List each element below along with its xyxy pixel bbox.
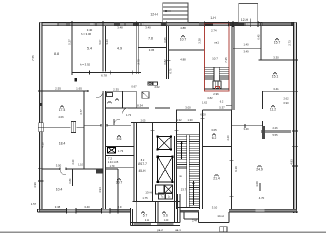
icon room 30.7: [117, 178, 120, 181]
wall y131 double: [261, 129, 291, 131]
svg-text:1.32: 1.32: [176, 118, 182, 122]
svg-text:5.7: 5.7: [143, 214, 148, 218]
svg-text:2.73: 2.73: [287, 40, 291, 46]
wall y60: [259, 59, 294, 61]
wall x199.5/202.5 double: [198, 123, 200, 210]
svg-text:ав-1: ав-1: [175, 228, 181, 232]
svg-text:3.00: 3.00: [185, 106, 191, 110]
wall small step bottom-left corner: [36, 209, 38, 212]
svg-text:1.73: 1.73: [126, 113, 132, 117]
svg-text:1.40: 1.40: [164, 220, 169, 222]
svg-text:9.19: 9.19: [234, 166, 238, 172]
node dark blob left wall: [40, 103, 43, 106]
svg-text:6.78: 6.78: [101, 74, 107, 78]
svg-text:7.35: 7.35: [224, 57, 228, 63]
door swing corridor: [114, 119, 120, 125]
svg-text:3.10: 3.10: [212, 205, 218, 209]
wall x84: [83, 91, 85, 169]
svg-text:4.83: 4.83: [290, 159, 294, 165]
wall x231.6 lower: [231, 110, 233, 209]
svg-text:1.73: 1.73: [118, 149, 124, 153]
wall y201.5 block top: [133, 201, 180, 203]
window opening bottom-right wall: [256, 210, 265, 212]
fixture box2: [142, 92, 149, 99]
svg-text:2.20: 2.20: [226, 135, 230, 141]
icon room 24.9: [258, 165, 261, 168]
svg-text:1.75: 1.75: [142, 196, 148, 200]
svg-text:2.55: 2.55: [55, 87, 61, 91]
ticks right wall: [292, 59, 298, 61]
svg-text:1.62: 1.62: [202, 101, 208, 105]
wall below room 10.7: [168, 49, 204, 51]
ticks top wall: [71, 21, 73, 27]
wall x232/234 double: [231, 26, 233, 110]
svg-text:23.7: 23.7: [181, 188, 187, 192]
wall x118: [117, 169, 119, 209]
svg-text:4.94: 4.94: [98, 187, 102, 193]
wall entrance recess left: [198, 212, 200, 223]
svg-text:14-Н: 14-Н: [217, 214, 224, 218]
wall x134.2 stub: [133, 190, 135, 202]
tick left wall y181: [38, 180, 44, 182]
porch box bottom right: [220, 227, 227, 232]
svg-text:4.18: 4.18: [41, 142, 45, 148]
wall y48.3: [233, 47, 261, 49]
svg-text:Ø17.7: Ø17.7: [138, 162, 147, 166]
svg-text:2.20: 2.20: [72, 159, 75, 164]
door swing room 10.4: [60, 169, 66, 175]
svg-text:h = 3.06: h = 3.06: [81, 32, 92, 36]
svg-text:4.99: 4.99: [33, 182, 37, 188]
svg-text:5.55: 5.55: [272, 133, 278, 137]
ticks in top band: [57, 22, 59, 25]
svg-text:2.62: 2.62: [154, 85, 160, 89]
svg-text:21.4: 21.4: [213, 177, 220, 181]
svg-text:13-Н: 13-Н: [145, 191, 152, 195]
svg-text:10.7: 10.7: [212, 57, 218, 61]
svg-text:17.4: 17.4: [59, 108, 66, 112]
wall block left double: [130, 209, 132, 225]
window openings bottom-left wall: [67, 210, 77, 212]
svg-text:3.49: 3.49: [243, 127, 249, 131]
staircase main treads: [176, 110, 178, 210]
node small store rooms under lifts: [159, 193, 166, 199]
wall x166 double: [165, 26, 167, 79]
wall y167.8: [105, 167, 134, 169]
wall entrance recess right: [228, 212, 230, 223]
icon room 6.2: [212, 134, 215, 137]
svg-text:5.37: 5.37: [219, 105, 225, 109]
svg-text:2.11: 2.11: [145, 220, 150, 222]
wall y169 with gaps: [42, 168, 60, 170]
icon sink row top: [148, 82, 158, 85]
svg-text:1.40: 1.40: [243, 43, 249, 47]
door swing corridor2: [123, 108, 129, 114]
svg-text:3.05: 3.05: [149, 48, 155, 52]
wall y127 with window capsule: [42, 126, 70, 128]
node dark door block corridor: [96, 169, 102, 174]
svg-text:0.65: 0.65: [163, 37, 167, 43]
window capsule in wall y127: [71, 122, 75, 133]
node arrow on external stair: [164, 10, 167, 12]
svg-text:h = 3.92: h = 3.92: [80, 62, 91, 66]
wire leader tick: [250, 19, 252, 27]
svg-text:1-Н: 1-Н: [210, 16, 216, 20]
wall stub x260: [259, 183, 261, 191]
svg-text:6.00: 6.00: [200, 113, 206, 117]
wall red box bottom: [204, 88, 229, 90]
balcony external stair top-centre: [163, 3, 188, 23]
wall x103 rooms 5.4/4.9: [102, 26, 104, 72]
wall x134/136.5 double: [133, 123, 135, 202]
svg-text:7.55: 7.55: [31, 55, 35, 61]
wall entrance step: [183, 212, 185, 219]
svg-text:15.1: 15.1: [272, 75, 279, 79]
svg-text:4.70: 4.70: [259, 196, 265, 200]
svg-text:15.7: 15.7: [274, 41, 281, 45]
wall y146.4: [202, 145, 231, 147]
svg-text:5.4: 5.4: [87, 47, 92, 51]
svg-text:3.40: 3.40: [84, 205, 90, 209]
door swing room 17.4: [96, 91, 103, 98]
icon room 15.1: [273, 72, 276, 75]
wall block right double: [176, 194, 178, 222]
wall x103/x105 double long: [102, 91, 104, 209]
fixture box: [107, 93, 113, 97]
wall y155.5: [105, 155, 134, 157]
svg-text:3.49: 3.49: [243, 50, 249, 54]
wall x261: [260, 26, 262, 60]
wall x72 rooms 8.8/5.4: [71, 26, 73, 76]
svg-text:45-Н: 45-Н: [139, 169, 147, 173]
svg-text:3.08: 3.08: [255, 181, 259, 187]
svg-text:12-Н: 12-Н: [150, 12, 158, 16]
ticks left wall: [38, 90, 44, 92]
icon room 6.6: [117, 135, 120, 138]
wall x174.6 lift lobby: [174, 136, 176, 201]
svg-text:2.96: 2.96: [213, 92, 219, 96]
svg-text:7.2: 7.2: [108, 157, 113, 161]
wall y125 corridor bottom: [84, 124, 101, 126]
svg-text:3.50: 3.50: [56, 164, 62, 168]
svg-text:24.9: 24.9: [256, 168, 263, 172]
svg-text:5.07: 5.07: [98, 39, 102, 45]
svg-text:3.23: 3.23: [105, 39, 109, 45]
svg-text:1.57: 1.57: [31, 202, 37, 206]
svg-text:30.7: 30.7: [116, 181, 123, 185]
node thin rectangle top-right (unit 12-Н outline): [239, 3, 258, 22]
icon room 5.6: [162, 212, 165, 215]
svg-text:0.67: 0.67: [131, 85, 137, 89]
svg-text:2.62: 2.62: [283, 97, 289, 101]
wall stub x72.5 lower: [72, 169, 74, 186]
elevator shaft 1: [158, 137, 171, 150]
node red door mark: [216, 87, 220, 89]
icon room 15.7: [275, 38, 278, 41]
wall exterior top band: [40, 22, 297, 25]
svg-text:2.35: 2.35: [113, 87, 119, 91]
node red unit outline: [204, 23, 229, 91]
wall y122.5 core top: [131, 122, 200, 124]
svg-text:2.74: 2.74: [211, 29, 217, 33]
wall exterior bottom band right part: [229, 209, 297, 212]
svg-text:8.8: 8.8: [54, 52, 59, 56]
svg-text:8.34: 8.34: [137, 104, 143, 108]
icon sink: [108, 101, 111, 104]
svg-text:6.2: 6.2: [220, 100, 224, 104]
svg-text:4.9: 4.9: [117, 47, 122, 51]
svg-text:2.73: 2.73: [137, 59, 141, 65]
svg-text:5.27: 5.27: [67, 39, 71, 45]
ticks assorted doors: [166, 59, 170, 61]
icon room 5.7: [141, 212, 144, 215]
window capsule left wall: [39, 123, 44, 132]
svg-text:0.82: 0.82: [163, 59, 167, 65]
svg-text:3.41: 3.41: [273, 87, 279, 91]
svg-text:0.80: 0.80: [69, 178, 72, 183]
machine boxes below elevators: [156, 185, 164, 194]
svg-text:3.28: 3.28: [198, 38, 202, 44]
walls bath cluster: [105, 90, 136, 92]
wall exterior bottom band left part: [40, 209, 131, 212]
svg-text:3.38: 3.38: [55, 205, 61, 209]
svg-text:7.8: 7.8: [148, 37, 153, 41]
svg-text:2.44: 2.44: [192, 220, 197, 223]
wire stair landing edge: [177, 167, 187, 169]
svg-text:0.45: 0.45: [257, 34, 261, 40]
wall exterior left band: [40, 22, 43, 211]
svg-text:1.30: 1.30: [187, 118, 193, 122]
stair lower landing hatch: [213, 81, 222, 88]
node stair arrow down-flight: [193, 181, 195, 205]
svg-text:2.26: 2.26: [272, 126, 278, 130]
walls block interior verticals: [135, 202, 137, 223]
wall stub y105: [226, 104, 232, 106]
icon room 10.7: [181, 35, 184, 38]
node stair arrow up-flight: [181, 141, 183, 159]
wall x136 double: [135, 26, 137, 74]
elevator shaft 2: [158, 157, 173, 182]
wall entrance recess bottom: [199, 222, 229, 224]
wire stair stringer: [186, 135, 188, 208]
wall x152.6: [152, 123, 154, 202]
svg-text:12-Н: 12-Н: [241, 18, 249, 22]
svg-text:6.2: 6.2: [212, 136, 217, 140]
shaft X-box black: [108, 147, 116, 153]
wire bottom frame line: [0, 231, 326, 233]
icon room 17.4: [60, 106, 63, 109]
ticks bottom wall: [66, 208, 68, 213]
window openings top wall: [43, 23, 59, 25]
wall y91 left: [42, 90, 88, 92]
icon room 11.2: [271, 105, 274, 108]
svg-text:3.30: 3.30: [273, 56, 279, 60]
svg-text:лк1: лк1: [214, 41, 219, 45]
svg-text:1.10: 1.10: [78, 164, 83, 167]
icon room 21.4: [215, 174, 218, 177]
svg-text:3.05: 3.05: [211, 128, 217, 132]
svg-text:0.90: 0.90: [283, 101, 289, 105]
svg-text:1.65: 1.65: [76, 87, 82, 91]
svg-text:1.44 1.05: 1.44 1.05: [108, 161, 119, 164]
wall exterior right band: [294, 22, 297, 213]
wall y91.2 right: [263, 90, 294, 92]
svg-text:4.06: 4.06: [58, 115, 64, 119]
svg-text:11.2: 11.2: [270, 108, 276, 112]
wall bottom segment under stair: [180, 210, 199, 212]
icon wc: [115, 99, 118, 102]
wall below room 7.8: [138, 46, 166, 48]
wall top dark piers: [40, 22, 43, 25]
wall y146.5: [105, 146, 134, 148]
hatch block bottom segments: [134, 223, 152, 225]
svg-text:3.40: 3.40: [145, 26, 151, 30]
svg-text:2.05: 2.05: [141, 120, 146, 123]
wire stair bottom edge: [177, 207, 200, 209]
svg-text:рв-2: рв-2: [157, 228, 163, 232]
svg-text:3.77: 3.77: [79, 109, 83, 115]
staircase upper treads: [205, 66, 229, 68]
svg-text:10.4: 10.4: [56, 188, 63, 192]
wall y125.8 to x262.5: [232, 125, 263, 127]
svg-text:4.88: 4.88: [180, 58, 186, 62]
wall y110: [177, 109, 196, 111]
wall y222.4: [131, 221, 181, 223]
svg-text:18.4: 18.4: [59, 142, 66, 146]
wall x262.5 upper: [262, 91, 264, 109]
svg-text:0.82: 0.82: [207, 96, 213, 100]
svg-text:3.48: 3.48: [117, 26, 123, 30]
wall y225.4 outer: [131, 224, 181, 226]
svg-text:6.70: 6.70: [170, 68, 173, 73]
node door block: [75, 78, 78, 82]
svg-text:4.88: 4.88: [180, 26, 186, 30]
wall y72.4: [72, 71, 141, 73]
svg-text:10.7: 10.7: [180, 38, 187, 42]
wall x262.5 lower: [262, 121, 264, 126]
wall dark segment x262: [262, 126, 265, 139]
